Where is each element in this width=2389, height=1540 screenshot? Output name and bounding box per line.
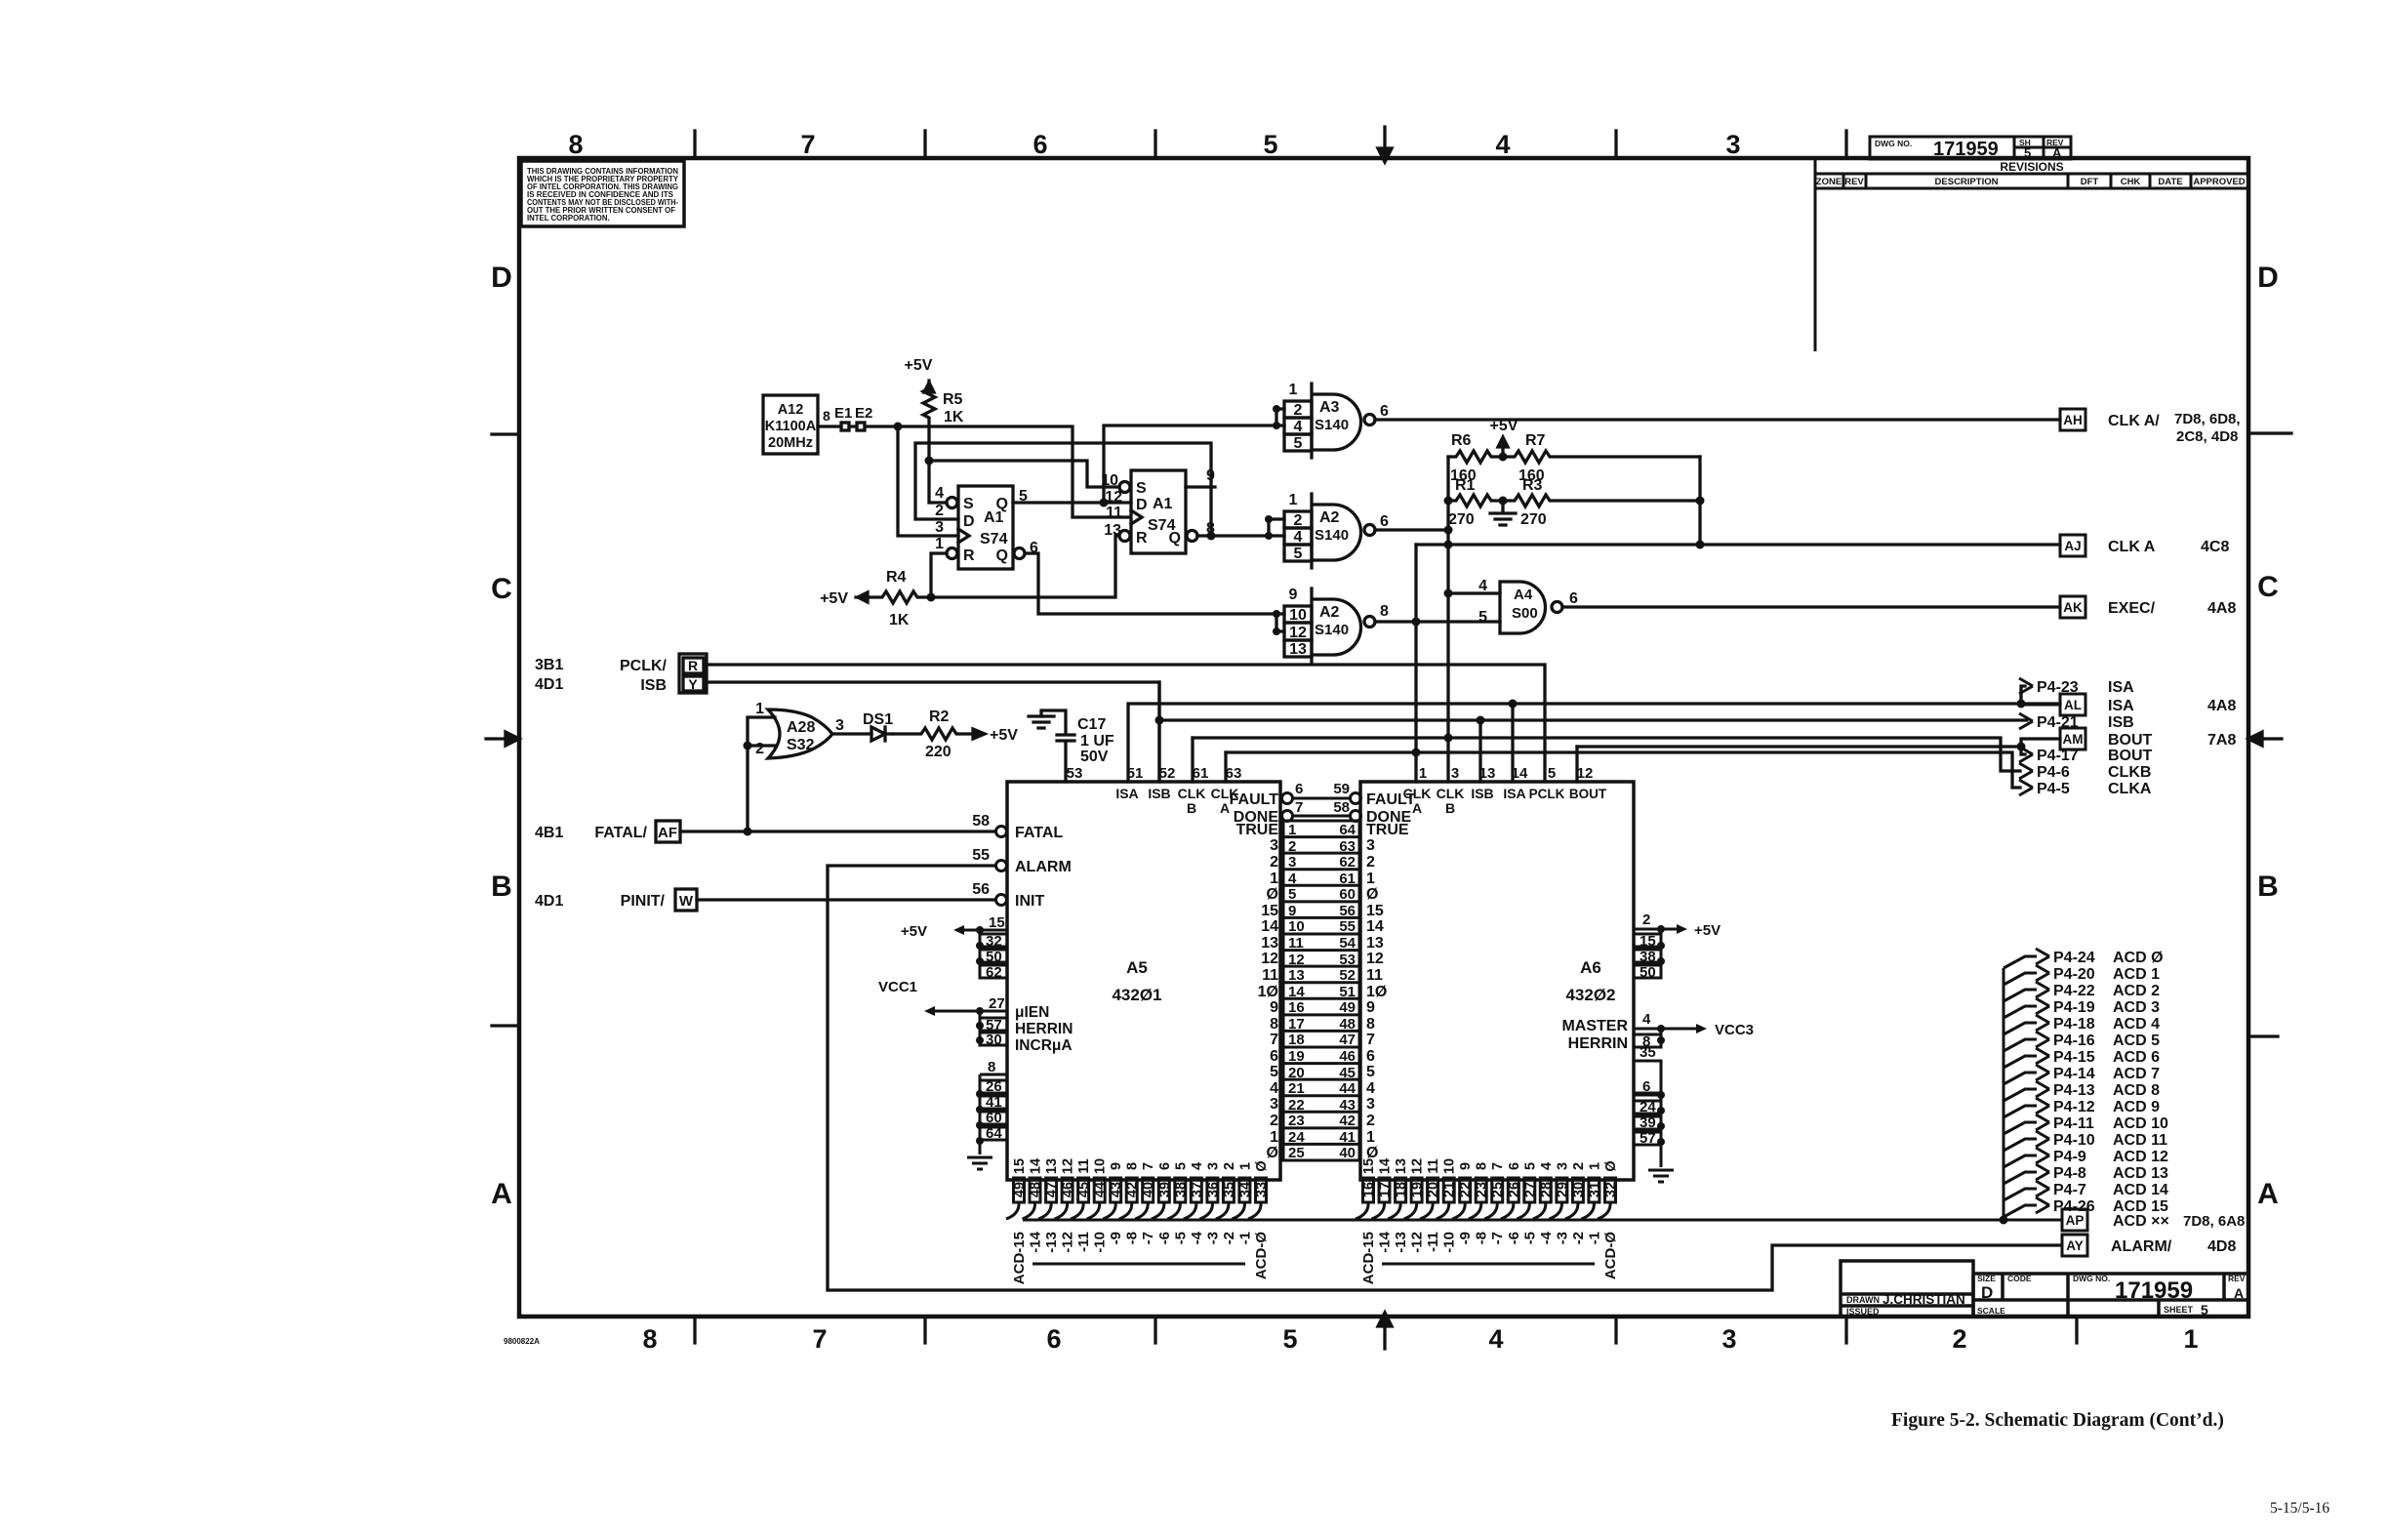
svg-text:MASTER: MASTER xyxy=(1561,1018,1628,1034)
svg-text:A: A xyxy=(2257,1178,2279,1210)
svg-text:Ø: Ø xyxy=(1254,1160,1270,1171)
svg-text:S140: S140 xyxy=(1315,417,1349,433)
center arrow top head xyxy=(1378,148,1392,162)
node ACD bus riser xyxy=(2000,1216,2008,1225)
svg-text:R: R xyxy=(688,658,698,673)
svg-text:5: 5 xyxy=(2024,145,2031,160)
svg-text:30: 30 xyxy=(986,1032,1002,1048)
output box AK xyxy=(2060,596,2085,618)
node A2low input tie xyxy=(1273,610,1280,618)
svg-text:DWG NO.: DWG NO. xyxy=(1875,139,1912,148)
svg-text:3: 3 xyxy=(1205,1162,1221,1170)
svg-text:AF: AF xyxy=(658,825,677,841)
power +5V R2 arrow xyxy=(973,729,985,739)
connector P4-7 xyxy=(2004,1189,2037,1200)
connector P4-24 xyxy=(2004,956,2037,968)
svg-text:13: 13 xyxy=(1289,641,1307,658)
svg-text:-8: -8 xyxy=(1124,1232,1141,1244)
svg-text:-5: -5 xyxy=(1521,1232,1538,1244)
svg-text:CLK: CLK xyxy=(1211,786,1239,801)
connector P4-12 xyxy=(2004,1106,2037,1117)
connector P4-18 xyxy=(2004,1023,2037,1034)
wire PCLK line xyxy=(707,665,1545,782)
svg-text:220: 220 xyxy=(925,744,952,760)
svg-text:5: 5 xyxy=(1173,1162,1189,1170)
pin 9 stub FF2 Q xyxy=(1186,485,1215,488)
wire riser A6 pin12 xyxy=(1575,747,1578,782)
svg-text:4B1: 4B1 xyxy=(535,825,563,841)
wire riser A6 pin3 xyxy=(1446,593,1449,782)
svg-text:A: A xyxy=(491,1178,512,1210)
svg-text:15: 15 xyxy=(1640,933,1656,950)
output box AP xyxy=(2062,1209,2087,1231)
IC A5 43201 xyxy=(1007,782,1280,1180)
A6 top pin numbers and names xyxy=(1419,765,1594,782)
svg-text:BOUT: BOUT xyxy=(2108,732,2153,749)
svg-text:2: 2 xyxy=(1642,912,1650,928)
wire INIT xyxy=(697,898,995,901)
resistor R5 1K vertical xyxy=(923,381,935,461)
svg-text:S140: S140 xyxy=(1315,527,1349,544)
svg-text:1: 1 xyxy=(1237,1162,1253,1170)
pin 4 bubble FF1 S xyxy=(947,498,957,508)
svg-text:S32: S32 xyxy=(787,737,815,753)
output box AY xyxy=(2062,1235,2087,1256)
svg-text:1: 1 xyxy=(1366,1129,1375,1146)
svg-text:W: W xyxy=(679,893,694,910)
svg-text:11: 11 xyxy=(1076,1158,1092,1173)
svg-text:19: 19 xyxy=(1410,1182,1426,1197)
svg-text:10: 10 xyxy=(1289,607,1307,624)
node ISB pin13riser xyxy=(1477,716,1485,725)
A5 pin 55 ALARM xyxy=(996,861,1007,871)
svg-text:P4-5: P4-5 xyxy=(2037,781,2070,797)
svg-text:-14: -14 xyxy=(1377,1231,1394,1252)
svg-text:15: 15 xyxy=(1012,1158,1028,1174)
svg-text:A: A xyxy=(2234,1285,2244,1301)
svg-text:8: 8 xyxy=(1380,603,1389,620)
svg-text:5: 5 xyxy=(1282,1324,1297,1354)
svg-text:20: 20 xyxy=(1288,1065,1305,1081)
node pin3 A4 tap xyxy=(1444,589,1453,598)
svg-text:C: C xyxy=(491,573,512,605)
svg-text:B: B xyxy=(1187,800,1196,816)
ladder bubbles FAULT DONE xyxy=(1282,793,1293,804)
svg-text:-10: -10 xyxy=(1441,1232,1458,1253)
wire riser A5 pin63 xyxy=(1224,752,1227,782)
node ISA pin14riser xyxy=(1509,700,1518,709)
svg-text:55: 55 xyxy=(972,847,990,864)
svg-text:5: 5 xyxy=(2201,1302,2208,1317)
svg-text:P4-6: P4-6 xyxy=(2037,764,2070,781)
node R5 net xyxy=(925,457,934,466)
svg-text:INCRμA: INCRμA xyxy=(1015,1037,1073,1054)
wire CLKB line xyxy=(1193,738,2020,771)
svg-text:REV: REV xyxy=(2228,1274,2246,1283)
oscillator A12 K1100A box xyxy=(763,395,818,454)
A5 bottom pin slots xyxy=(1006,1178,1267,1219)
svg-text:R2: R2 xyxy=(929,709,950,725)
svg-text:34: 34 xyxy=(1237,1182,1253,1197)
svg-text:CHK: CHK xyxy=(2121,177,2141,187)
power +5V for R5 xyxy=(924,383,934,392)
svg-text:ACD 6: ACD 6 xyxy=(2113,1049,2160,1066)
svg-text:A5: A5 xyxy=(1126,958,1148,977)
svg-text:P4-20: P4-20 xyxy=(2053,966,2095,983)
wire riser A6 pin1 xyxy=(1414,545,1417,782)
svg-text:ACD Ø: ACD Ø xyxy=(2113,950,2164,966)
svg-text:2C8, 4D8: 2C8, 4D8 xyxy=(2176,428,2238,445)
svg-text:4: 4 xyxy=(1288,871,1297,887)
svg-text:ISB: ISB xyxy=(1471,786,1493,801)
wire CLK A/ output A3 to AH xyxy=(1375,418,2060,421)
connector P4-9 xyxy=(2004,1155,2037,1167)
zone tick top 4/3 xyxy=(1614,131,1617,158)
zone letters right xyxy=(2257,262,2279,1210)
wire R5 net to S inputs xyxy=(929,461,1119,503)
svg-text:ISB: ISB xyxy=(2108,714,2134,731)
center arrow left head xyxy=(506,732,519,746)
wire AP stub xyxy=(2004,1219,2062,1222)
svg-text:SIZE: SIZE xyxy=(1977,1274,1996,1283)
input box AF FATAL xyxy=(656,821,680,842)
svg-text:R3: R3 xyxy=(1522,477,1543,494)
zone tick bottom 8/7 xyxy=(693,1317,696,1343)
svg-text:CLK: CLK xyxy=(1178,786,1206,801)
svg-text:63: 63 xyxy=(1339,838,1356,855)
svg-text:3: 3 xyxy=(1366,837,1375,854)
svg-text:3B1: 3B1 xyxy=(535,657,563,673)
svg-text:51: 51 xyxy=(1339,984,1356,1000)
svg-text:Q: Q xyxy=(1169,530,1181,547)
node A28 in2 xyxy=(744,742,752,750)
zone tick top 3/2 xyxy=(1844,131,1847,158)
A5 pin 56 INIT xyxy=(996,895,1007,906)
svg-text:53: 53 xyxy=(1339,952,1356,968)
svg-text:30: 30 xyxy=(1571,1182,1587,1197)
svg-text:ACD 5: ACD 5 xyxy=(2113,1033,2160,1049)
svg-text:1: 1 xyxy=(1288,822,1296,838)
flipflop A1 S74 second xyxy=(1131,470,1186,553)
connector P4-5 xyxy=(2019,780,2033,795)
svg-text:25: 25 xyxy=(1490,1182,1506,1197)
pin 10 bubble FF2 S xyxy=(1119,482,1130,493)
zone tick top 7/6 xyxy=(923,131,926,158)
svg-text:ALARM: ALARM xyxy=(1015,859,1072,875)
svg-text:62: 62 xyxy=(986,964,1002,981)
connector P4-17 xyxy=(2019,747,2033,762)
svg-text:15: 15 xyxy=(1366,903,1384,919)
svg-text:ZONE: ZONE xyxy=(1816,177,1842,187)
svg-text:42: 42 xyxy=(1125,1182,1141,1197)
svg-text:C: C xyxy=(2257,571,2279,603)
svg-text:5: 5 xyxy=(1288,886,1296,903)
svg-text:10: 10 xyxy=(1101,472,1118,489)
svg-text:A28: A28 xyxy=(787,719,815,736)
zone tick top 8/7 xyxy=(693,131,696,158)
svg-text:P4-10: P4-10 xyxy=(2053,1132,2095,1149)
jumper E1 xyxy=(841,423,849,430)
wire ACD bus xyxy=(1023,1219,2062,1222)
svg-text:-11: -11 xyxy=(1075,1232,1092,1252)
svg-text:5: 5 xyxy=(1270,1064,1278,1080)
svg-text:6: 6 xyxy=(1295,781,1303,797)
svg-text:+5V: +5V xyxy=(1490,418,1518,434)
svg-text:HERRIN: HERRIN xyxy=(1015,1021,1073,1037)
svg-text:BOUT: BOUT xyxy=(1569,787,1607,801)
center arrow top xyxy=(1383,127,1386,154)
svg-text:A12: A12 xyxy=(778,402,804,418)
svg-text:12: 12 xyxy=(1261,951,1278,967)
svg-text:-3: -3 xyxy=(1204,1232,1221,1244)
svg-text:AL: AL xyxy=(2064,698,2082,712)
node CLKA rail left xyxy=(1444,541,1453,549)
svg-text:Ø: Ø xyxy=(1366,886,1378,903)
wire A28 out xyxy=(832,732,871,735)
svg-text:CLKB: CLKB xyxy=(2108,764,2151,781)
zone labels top xyxy=(568,130,1740,159)
wire osc to FF1 clock xyxy=(898,426,958,536)
jumper E2 xyxy=(857,423,865,430)
svg-text:7: 7 xyxy=(1366,1032,1375,1048)
svg-text:13: 13 xyxy=(1261,935,1278,952)
resistor R3 270 xyxy=(1503,495,1700,507)
svg-text:31: 31 xyxy=(1587,1182,1602,1197)
svg-text:20: 20 xyxy=(1426,1182,1441,1197)
svg-text:SCALE: SCALE xyxy=(1977,1306,2005,1316)
svg-text:+5V: +5V xyxy=(901,923,927,940)
svg-text:7D8, 6D8,: 7D8, 6D8, xyxy=(2174,411,2241,427)
svg-text:32: 32 xyxy=(1603,1182,1619,1197)
svg-text:8: 8 xyxy=(1366,1016,1375,1033)
zone tick bottom 3/2 xyxy=(1844,1317,1847,1343)
capacitor C17 xyxy=(1041,710,1074,782)
svg-text:12: 12 xyxy=(1577,765,1594,782)
svg-text:6: 6 xyxy=(1046,1324,1061,1354)
svg-text:A1: A1 xyxy=(1153,496,1173,512)
svg-text:AY: AY xyxy=(2066,1238,2084,1253)
pin 13 bubble FF2 R xyxy=(1119,531,1130,542)
svg-text:38: 38 xyxy=(1640,949,1656,965)
svg-text:R6: R6 xyxy=(1451,432,1472,449)
svg-text:58: 58 xyxy=(972,813,990,830)
zone tick right D/C xyxy=(2248,431,2291,434)
wire BOUT line xyxy=(1577,739,2060,754)
svg-text:-4: -4 xyxy=(1538,1231,1555,1244)
svg-text:2: 2 xyxy=(1222,1162,1237,1170)
svg-text:ACD 8: ACD 8 xyxy=(2113,1082,2160,1099)
resistor network R6 R7 R1 R3 xyxy=(1444,437,1705,593)
svg-text:A3: A3 xyxy=(1319,399,1340,416)
svg-text:42: 42 xyxy=(1339,1113,1356,1129)
svg-text:3: 3 xyxy=(935,519,944,536)
svg-text:-4: -4 xyxy=(1189,1231,1205,1244)
svg-text:B: B xyxy=(491,871,512,903)
svg-text:-6: -6 xyxy=(1506,1232,1522,1244)
svg-text:TRUE: TRUE xyxy=(1366,822,1409,838)
svg-text:6: 6 xyxy=(1380,403,1389,420)
svg-text:ACD 10: ACD 10 xyxy=(2113,1115,2168,1132)
svg-text:Ø: Ø xyxy=(1267,886,1278,903)
svg-text:+5V: +5V xyxy=(1694,922,1721,939)
svg-text:59: 59 xyxy=(1333,781,1350,797)
svg-text:33: 33 xyxy=(1254,1182,1270,1197)
svg-text:12: 12 xyxy=(1366,951,1384,967)
svg-text:ACD-Ø: ACD-Ø xyxy=(1602,1232,1619,1279)
power +5V A5 group xyxy=(957,930,1007,978)
svg-text:6: 6 xyxy=(1642,1078,1650,1095)
svg-text:5: 5 xyxy=(1478,609,1487,626)
svg-text:DWG NO.: DWG NO. xyxy=(2073,1274,2110,1283)
svg-text:11: 11 xyxy=(1366,967,1383,984)
svg-text:2: 2 xyxy=(1270,854,1278,871)
svg-text:+5V: +5V xyxy=(990,727,1018,744)
node ISB branch xyxy=(1155,716,1164,725)
connector P4-8 xyxy=(2004,1172,2037,1184)
svg-text:8: 8 xyxy=(1206,520,1215,537)
svg-text:Ø: Ø xyxy=(1267,1145,1278,1161)
svg-text:ACD 3: ACD 3 xyxy=(2113,999,2160,1016)
pin 8 bubble FF2 Qbar xyxy=(1187,531,1197,542)
connector P4-19 xyxy=(2004,1006,2037,1018)
svg-text:P4-17: P4-17 xyxy=(2037,748,2079,764)
svg-text:A6: A6 xyxy=(1580,958,1601,977)
svg-text:3: 3 xyxy=(835,717,844,734)
svg-text:1Ø: 1Ø xyxy=(1258,984,1278,1000)
svg-text:9: 9 xyxy=(1109,1162,1124,1170)
svg-text:ACD 14: ACD 14 xyxy=(2113,1182,2168,1198)
svg-text:6: 6 xyxy=(1270,1048,1278,1065)
svg-text:21: 21 xyxy=(1442,1182,1458,1197)
node R1R3 center xyxy=(1499,497,1508,506)
svg-text:5: 5 xyxy=(1522,1162,1538,1170)
svg-text:13: 13 xyxy=(1288,967,1305,984)
svg-text:10: 10 xyxy=(1288,918,1305,935)
svg-text:5: 5 xyxy=(1548,765,1556,782)
svg-text:47: 47 xyxy=(1339,1032,1356,1048)
svg-text:12: 12 xyxy=(1105,489,1122,506)
svg-text:44: 44 xyxy=(1339,1080,1356,1097)
svg-text:8: 8 xyxy=(568,130,583,159)
svg-text:12: 12 xyxy=(1061,1158,1076,1174)
svg-text:1K: 1K xyxy=(889,612,910,628)
svg-text:J.CHRISTIAN: J.CHRISTIAN xyxy=(1883,1292,1965,1307)
svg-text:-13: -13 xyxy=(1043,1232,1060,1253)
svg-text:9800822A: 9800822A xyxy=(504,1337,540,1346)
svg-text:6: 6 xyxy=(1157,1162,1173,1170)
svg-text:-10: -10 xyxy=(1092,1232,1109,1253)
svg-text:P4-22: P4-22 xyxy=(2053,983,2095,999)
center arrow bottom xyxy=(1383,1323,1386,1349)
svg-text:3: 3 xyxy=(1288,854,1296,871)
svg-text:-12: -12 xyxy=(1060,1232,1076,1253)
svg-text:14: 14 xyxy=(1512,765,1528,782)
svg-text:18: 18 xyxy=(1288,1032,1305,1048)
svg-text:R4: R4 xyxy=(886,569,907,586)
node R4 FF1R junction xyxy=(927,593,936,602)
svg-text:-9: -9 xyxy=(1457,1232,1474,1244)
node FF1 Q junction xyxy=(1100,499,1109,507)
svg-text:20MHz: 20MHz xyxy=(768,435,813,451)
svg-text:-2: -2 xyxy=(1570,1232,1587,1244)
svg-text:6: 6 xyxy=(1033,130,1047,159)
svg-text:D: D xyxy=(491,262,512,294)
svg-text:AK: AK xyxy=(2063,600,2083,615)
svg-text:BOUT: BOUT xyxy=(2108,748,2153,764)
svg-text:ISSUED: ISSUED xyxy=(1846,1307,1880,1317)
svg-text:48: 48 xyxy=(1029,1182,1044,1197)
svg-text:CLK: CLK xyxy=(1437,786,1465,801)
svg-text:2: 2 xyxy=(1952,1324,1966,1354)
svg-text:ACD 11: ACD 11 xyxy=(2113,1132,2167,1149)
svg-text:11: 11 xyxy=(1288,935,1304,952)
svg-text:ALARM/: ALARM/ xyxy=(2111,1238,2172,1255)
svg-text:270: 270 xyxy=(1520,511,1547,528)
svg-text:7: 7 xyxy=(1141,1162,1156,1170)
svg-text:-1: -1 xyxy=(1236,1232,1253,1244)
svg-text:Q: Q xyxy=(996,547,1008,564)
svg-text:1: 1 xyxy=(935,536,944,552)
connector P4-20 xyxy=(2004,973,2037,985)
connector P4-10 xyxy=(2004,1139,2037,1151)
svg-text:Ø: Ø xyxy=(1603,1160,1619,1171)
svg-text:1: 1 xyxy=(1366,871,1375,887)
svg-text:DATE: DATE xyxy=(2158,177,2182,187)
svg-text:CLK: CLK xyxy=(1403,786,1432,801)
svg-text:3: 3 xyxy=(1725,130,1740,159)
svg-text:ACD 13: ACD 13 xyxy=(2113,1165,2168,1182)
svg-text:4A8: 4A8 xyxy=(2207,600,2236,617)
svg-text:+5V: +5V xyxy=(905,357,933,374)
svg-text:62: 62 xyxy=(1339,854,1356,871)
svg-text:4C8: 4C8 xyxy=(2201,539,2229,555)
svg-text:6: 6 xyxy=(1366,1048,1375,1065)
svg-text:37: 37 xyxy=(1190,1182,1205,1197)
title block xyxy=(1841,1261,2248,1317)
node A3 input tie xyxy=(1273,405,1280,413)
svg-text:38: 38 xyxy=(1173,1182,1189,1197)
svg-text:40: 40 xyxy=(1339,1145,1356,1161)
svg-text:2: 2 xyxy=(1288,838,1296,855)
input box Y ISB xyxy=(683,676,704,691)
svg-text:27: 27 xyxy=(1522,1182,1538,1197)
svg-text:45: 45 xyxy=(1076,1182,1092,1197)
svg-text:16: 16 xyxy=(1361,1182,1377,1197)
svg-text:Q: Q xyxy=(996,496,1008,512)
or gate A28 S32 xyxy=(768,709,832,758)
svg-text:1: 1 xyxy=(755,701,764,717)
svg-text:CLK A: CLK A xyxy=(2108,539,2156,555)
wire FF1 Qbar to A2 input xyxy=(1025,553,1284,631)
wire FF1 Q to A3 input xyxy=(1104,409,1284,503)
wire CLKA link line xyxy=(1226,752,2020,788)
wire A4 pin4 input xyxy=(1448,591,1500,594)
resistor R2 220 xyxy=(893,728,970,740)
svg-text:INIT: INIT xyxy=(1015,893,1044,910)
center arrow right xyxy=(2256,737,2282,740)
resistor R4 1K horizontal xyxy=(856,591,934,603)
wire FF2 Qbar to A2mid input xyxy=(1197,519,1284,536)
node CLKB pin3riser xyxy=(1444,734,1453,743)
svg-text:-11: -11 xyxy=(1425,1232,1441,1252)
svg-text:17: 17 xyxy=(1378,1182,1394,1197)
gate A2 S140 low xyxy=(1284,588,1375,663)
svg-text:-13: -13 xyxy=(1393,1232,1409,1253)
svg-text:S140: S140 xyxy=(1315,622,1349,638)
connector P4-22 xyxy=(2004,990,2037,1001)
svg-text:171959: 171959 xyxy=(1933,139,1999,160)
svg-text:5: 5 xyxy=(1366,1064,1375,1080)
